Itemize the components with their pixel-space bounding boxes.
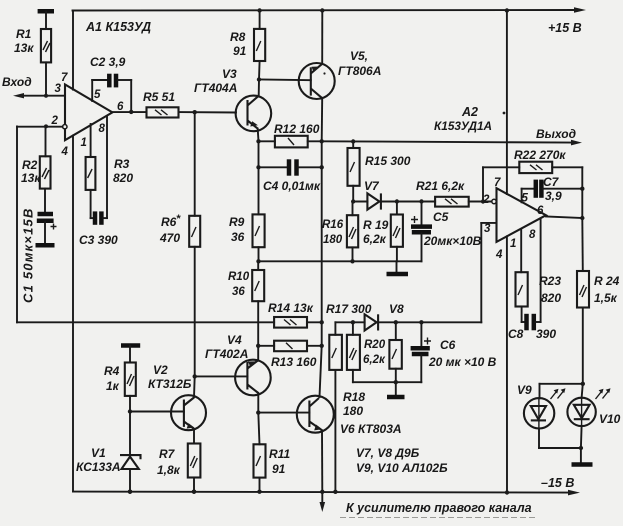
node C2 value label — [90, 55, 126, 69]
wire A2 pin3 from V8 row — [481, 223, 496, 322]
svg-text:390: 390 — [536, 327, 556, 341]
zener V1 — [120, 412, 141, 494]
node R15 value label — [365, 154, 411, 168]
svg-text:R16: R16 — [322, 219, 344, 231]
svg-text:R 19: R 19 — [363, 218, 389, 232]
wire to right channel (down arrow from bottom rail) — [320, 492, 326, 512]
svg-text:Вход: Вход — [2, 75, 32, 89]
svg-text:С4 0,01мк: С4 0,01мк — [263, 179, 321, 193]
svg-text:ГТ402А: ГТ402А — [205, 347, 248, 361]
svg-text:6: 6 — [537, 205, 544, 217]
svg-text:С5: С5 — [433, 210, 449, 224]
node R11 value label — [269, 447, 290, 476]
svg-text:4: 4 — [495, 249, 503, 261]
resistor R8 — [254, 11, 265, 80]
node R9 value label — [229, 215, 245, 244]
svg-text:2: 2 — [51, 115, 59, 127]
resistor R4 — [125, 363, 136, 414]
ground (below LEDs) — [572, 462, 593, 467]
svg-text:36: 36 — [231, 230, 245, 244]
wire -15V bottom rail — [73, 490, 580, 496]
svg-text:V8: V8 — [389, 302, 404, 316]
wire V3 collector to R8 node — [257, 77, 261, 96]
capacitor C3 — [91, 116, 107, 225]
svg-text:5: 5 — [94, 89, 101, 101]
ground (below C1) — [36, 243, 55, 248]
svg-text:91: 91 — [272, 462, 286, 476]
wire R6 line down to V2 collector — [193, 376, 196, 397]
LED V10 — [567, 382, 595, 448]
capacitor C7 — [522, 180, 585, 203]
wire +15V top rail — [73, 7, 587, 13]
resistor R14 — [274, 317, 324, 328]
node R13 value label — [271, 355, 317, 369]
svg-text:С1 50мк×15В: С1 50мк×15В — [21, 207, 36, 303]
svg-text:1: 1 — [81, 137, 87, 149]
svg-text:180: 180 — [343, 404, 363, 418]
svg-text:V7, V8 Д9Б: V7, V8 Д9Б — [356, 446, 420, 460]
svg-text:*: * — [176, 213, 181, 225]
svg-text:1,8к: 1,8к — [157, 463, 181, 477]
svg-text:R12 160: R12 160 — [274, 122, 320, 136]
svg-text:R22 270к: R22 270к — [514, 148, 566, 162]
svg-text:R13 160: R13 160 — [271, 355, 317, 369]
svg-text:R15 300: R15 300 — [365, 154, 411, 168]
node C6 value label — [428, 338, 497, 369]
resistor R10 — [252, 261, 264, 360]
wire V5 collector down to output bus — [320, 98, 324, 143]
node V9 label — [517, 383, 532, 397]
svg-text:R 24: R 24 — [594, 274, 620, 288]
svg-text:13к: 13к — [21, 171, 41, 185]
node C3 value label — [79, 233, 118, 247]
transistor V3 — [236, 96, 272, 132]
svg-text:R14 13к: R14 13к — [268, 301, 314, 315]
svg-text:+15 В: +15 В — [548, 21, 582, 35]
wire V3 emitter down — [256, 129, 260, 144]
node R23 value label — [539, 274, 561, 305]
capacitor C2 — [92, 74, 131, 112]
svg-text:7: 7 — [494, 177, 501, 189]
node V1 label — [76, 446, 121, 474]
wire A1 pin2 to feedback net — [17, 124, 274, 322]
svg-text:С7: С7 — [543, 175, 560, 189]
resistor R23 — [516, 272, 528, 322]
resistor R13 — [256, 341, 324, 352]
resistor R2 — [40, 126, 51, 188]
op-amp A2 — [492, 188, 546, 242]
resistor R20 — [389, 320, 401, 384]
node R6 value label — [159, 213, 181, 245]
node stray scan speck — [323, 72, 505, 114]
svg-text:3,9: 3,9 — [545, 189, 562, 203]
node V8 label — [389, 302, 404, 316]
wire A2 pin4 to -15V rail — [505, 236, 509, 494]
wire output rail to Vyhod — [322, 140, 582, 146]
node -15V label — [541, 476, 574, 490]
node C4 value label — [263, 179, 321, 193]
svg-text:3: 3 — [484, 223, 491, 235]
node R21 value label — [416, 179, 465, 193]
node A2 pin labels — [482, 177, 544, 261]
node R24 value label — [594, 274, 620, 305]
svg-text:R10: R10 — [228, 271, 250, 283]
svg-text:R5 51: R5 51 — [143, 90, 175, 104]
wire V6 base from V4 — [258, 412, 309, 414]
svg-text:4: 4 — [61, 146, 69, 158]
node C8 value label — [508, 327, 556, 341]
wire A1 pin7 to +15V — [72, 11, 74, 90]
svg-text:R18: R18 — [343, 390, 365, 404]
svg-text:470: 470 — [159, 231, 180, 245]
svg-text:–15 В: –15 В — [541, 476, 574, 490]
wire output bus vertical — [320, 141, 322, 397]
svg-text:А2: А2 — [461, 105, 478, 119]
svg-text:ГТ806А: ГТ806А — [338, 64, 381, 78]
node R2 value label — [21, 158, 41, 185]
node V4 label — [205, 333, 248, 361]
transistor V4 — [235, 360, 271, 396]
resistor R22 — [483, 162, 582, 202]
node V6 label — [340, 422, 402, 436]
svg-text:36: 36 — [232, 286, 245, 298]
node R7 value label — [157, 447, 181, 477]
svg-text:R2: R2 — [22, 158, 38, 172]
resistor R3 — [86, 124, 96, 218]
transistor V5 — [299, 63, 335, 99]
diode V8 — [365, 314, 482, 330]
svg-text:R7: R7 — [159, 447, 176, 461]
resistor R17 — [329, 335, 342, 494]
node R5 value label — [143, 90, 175, 104]
svg-text:С2 3,9: С2 3,9 — [90, 55, 126, 69]
svg-text:R9: R9 — [229, 215, 245, 229]
node R18 value label — [343, 390, 365, 418]
node R16 value label — [322, 219, 344, 246]
wire V6 emitter to -15V rail — [320, 430, 324, 494]
capacitor C6 electrolytic — [411, 320, 431, 382]
svg-text:R1: R1 — [16, 27, 32, 41]
svg-text:7: 7 — [61, 72, 68, 84]
wire V5 emitter to +15V — [257, 8, 509, 64]
svg-text:R3: R3 — [114, 157, 130, 171]
svg-text:R8: R8 — [230, 30, 246, 44]
node A1 chip label — [85, 20, 151, 34]
resistor R12 — [259, 136, 322, 148]
wire A1 output — [112, 110, 146, 114]
node R3 value label — [113, 157, 133, 185]
svg-text:R23: R23 — [539, 274, 561, 288]
transistor V6 — [297, 396, 334, 433]
diode V7 — [353, 193, 435, 209]
svg-text:КС133А: КС133А — [76, 460, 121, 474]
wire A2 pin1 to R23 — [520, 229, 522, 272]
node R19 value label — [363, 218, 389, 246]
capacitor C5 electrolytic — [411, 199, 432, 261]
node R8 value label — [230, 30, 247, 58]
resistor R5 — [147, 107, 237, 117]
svg-text:820: 820 — [113, 171, 133, 185]
svg-text:180: 180 — [323, 234, 343, 246]
node +15V label — [548, 21, 582, 35]
wire V9 top to R24 bottom — [540, 383, 583, 385]
wire V8 row — [335, 320, 364, 335]
node R12 value label — [274, 122, 320, 136]
wire R4 node to V2 base — [130, 411, 184, 413]
resistor R6 — [189, 112, 200, 376]
node V3 label — [194, 67, 237, 95]
svg-text:1: 1 — [510, 238, 516, 250]
svg-text:13к: 13к — [14, 41, 34, 55]
resistor R15 — [348, 139, 360, 203]
resistor R18 — [347, 335, 421, 382]
svg-text:С8: С8 — [508, 327, 524, 341]
resistor R19 — [391, 199, 403, 261]
svg-text:С3 390: С3 390 — [79, 233, 118, 247]
node R14 value label — [268, 301, 314, 315]
svg-text:20мк×10В: 20мк×10В — [423, 234, 482, 248]
node junction dots on -15V rail — [128, 490, 196, 494]
node R22 value label — [514, 148, 566, 162]
svg-text:V2: V2 — [153, 363, 168, 377]
transistor V2 — [171, 395, 206, 430]
svg-text:V7: V7 — [364, 179, 380, 193]
wire A2 pin8 to C8 — [540, 220, 542, 323]
node C7 value label — [543, 175, 562, 203]
svg-text:8: 8 — [99, 123, 106, 135]
wire V4 collector to R11 — [256, 393, 260, 444]
node V9 light arrows — [551, 388, 566, 399]
svg-text:1,5к: 1,5к — [594, 291, 618, 305]
node A2 chip label — [434, 105, 492, 133]
svg-text:К усилителю правого канала: К усилителю правого канала — [346, 501, 532, 515]
resistor R16 — [347, 202, 358, 262]
node output label Выход — [536, 127, 576, 141]
svg-text:820: 820 — [541, 291, 561, 305]
node R20 value label — [363, 339, 386, 366]
svg-text:V10: V10 — [599, 412, 621, 426]
ground (below R20) — [387, 382, 405, 397]
svg-text:91: 91 — [233, 44, 247, 58]
resistor R21 — [435, 197, 491, 207]
resistor R9 — [253, 214, 265, 261]
svg-text:С6: С6 — [440, 338, 456, 352]
ground (mid rail) — [387, 272, 409, 277]
node junction R1-input — [44, 94, 48, 98]
resistor R24 — [577, 218, 589, 384]
svg-text:V5,: V5, — [350, 49, 368, 63]
node R1 value label — [14, 27, 34, 55]
node C1 value label (rotated) — [21, 207, 36, 303]
svg-text:V1: V1 — [91, 446, 106, 460]
svg-text:6,2к: 6,2к — [363, 354, 386, 366]
svg-text:V4: V4 — [227, 333, 242, 347]
svg-text:1к: 1к — [106, 379, 120, 393]
svg-text:R21 6,2к: R21 6,2к — [416, 179, 465, 193]
ground (above R4) — [121, 346, 140, 363]
wire V4 base from R6 — [193, 374, 248, 378]
svg-text:8: 8 — [529, 229, 536, 241]
svg-text:ГТ404А: ГТ404А — [194, 81, 237, 95]
svg-text:V6 КТ803А: V6 КТ803А — [340, 422, 402, 436]
wire LED cathodes join — [539, 446, 583, 463]
svg-text:V9, V10 АЛ102Б: V9, V10 АЛ102Б — [356, 461, 448, 475]
svg-text:Выход: Выход — [536, 127, 576, 141]
node V2 label — [148, 363, 192, 391]
svg-text:6,2к: 6,2к — [363, 232, 387, 246]
svg-text:R11: R11 — [269, 447, 290, 461]
wire A2 pin7 to +15V — [506, 11, 508, 195]
svg-text:R20: R20 — [364, 339, 386, 351]
node R4 value label — [104, 364, 120, 393]
LED V9 — [524, 384, 554, 448]
node R10 value label — [228, 271, 250, 298]
node input terminal Вход — [2, 75, 65, 98]
op-amp A1 — [63, 85, 113, 141]
svg-text:V3: V3 — [222, 67, 237, 81]
svg-text:V9: V9 — [517, 383, 532, 397]
node A1 pin labels — [51, 72, 125, 158]
node diodes type label — [356, 446, 448, 475]
wire R8 node to V5 base — [259, 79, 311, 82]
node label to right channel amplifier — [340, 501, 535, 518]
capacitor C4 — [256, 159, 324, 175]
resistor R1 — [41, 29, 51, 96]
node V7 label — [364, 179, 380, 193]
svg-text:R6: R6 — [161, 215, 177, 229]
svg-text:К153УД1А: К153УД1А — [434, 119, 492, 133]
node C5 value label — [423, 210, 482, 248]
svg-text:КТ312Б: КТ312Б — [148, 377, 192, 391]
wire mid ground rail — [256, 259, 421, 272]
resistor R7 — [188, 429, 201, 494]
node V5 label — [338, 49, 381, 78]
node V10 label — [599, 412, 621, 426]
capacitor C1 electrolytic — [37, 189, 57, 244]
wire V3 emitter chain to R9 — [258, 141, 260, 214]
resistor R11 — [254, 444, 266, 494]
node R17 value label — [326, 302, 372, 316]
wire A2 output pin6 — [546, 167, 585, 220]
wire A1 pin4 down to -15V rail — [72, 135, 74, 491]
svg-text:3: 3 — [55, 83, 62, 95]
node V10 light arrows — [596, 388, 611, 399]
ground (above R1) — [38, 11, 54, 29]
capacitor C8 — [522, 314, 541, 331]
svg-text:R4: R4 — [104, 364, 120, 378]
svg-text:20 мк ×10 В: 20 мк ×10 В — [428, 355, 497, 369]
svg-text:А1 К153УД: А1 К153УД — [85, 20, 151, 34]
